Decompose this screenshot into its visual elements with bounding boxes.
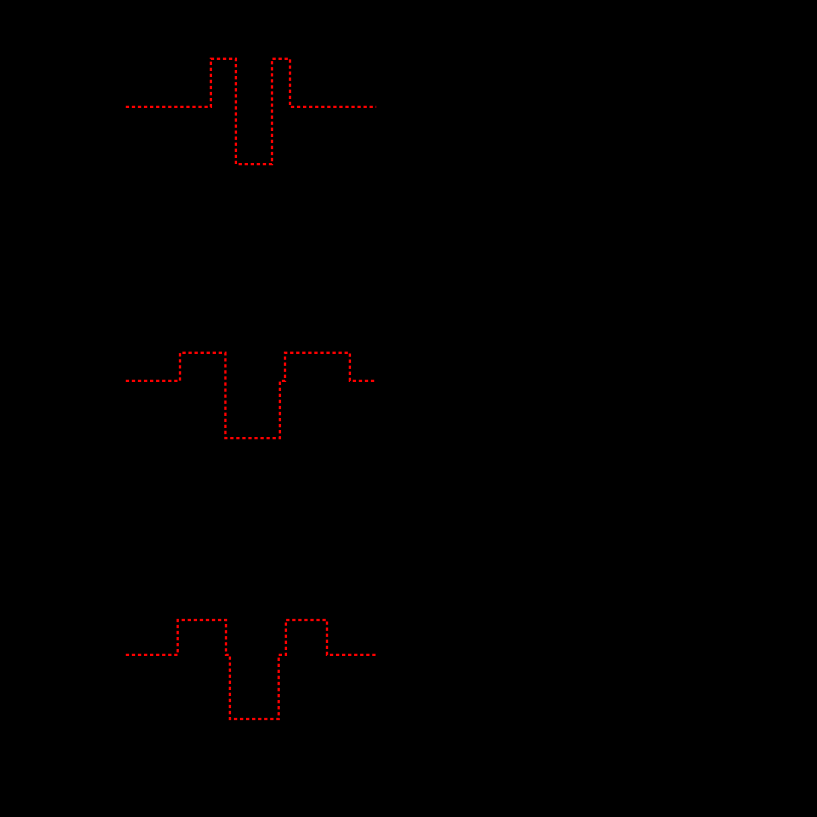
trace 1: red dotted step pulse (top panel)	[126, 59, 376, 164]
trace 3: red dotted step pulse (bottom panel)	[126, 620, 376, 719]
trace 2: red dotted step pulse (middle panel)	[126, 353, 376, 438]
